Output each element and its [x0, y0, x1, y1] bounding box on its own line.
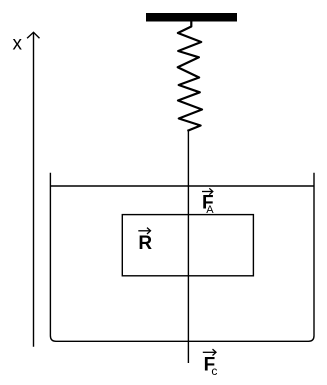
label F_c (weight/force): [203, 349, 218, 378]
svg-text:R: R: [138, 233, 152, 254]
svg-text:c: c: [211, 364, 217, 378]
svg-text:A: A: [206, 204, 214, 216]
svg-text:x: x: [13, 34, 23, 55]
x axis line: [33, 32, 35, 346]
ceiling support bar: [146, 13, 237, 22]
x axis arrowhead: [27, 32, 39, 38]
wire: central vertical line: [187, 131, 189, 364]
label R (block): [138, 228, 152, 255]
block rectangle R: [122, 215, 253, 276]
liquid surface line: [50, 185, 314, 187]
container (tank): [50, 173, 314, 342]
spring: [178, 22, 202, 131]
label F_A (buoyant force): [202, 188, 214, 216]
